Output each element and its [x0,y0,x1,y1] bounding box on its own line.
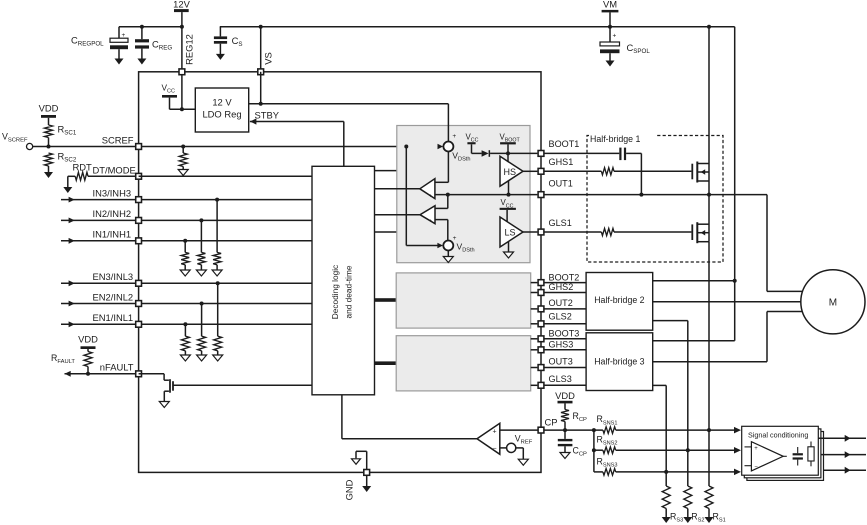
driver LS [500,217,523,247]
source VREF [500,433,533,452]
wire GHS3 ext [544,349,586,351]
pin GLS2 [538,312,572,327]
svg-text:+: + [122,32,126,39]
svg-text:+: + [452,133,456,140]
resistor IN3 pulldown [212,198,222,276]
resistor gate HS1 [544,168,691,175]
wire driver pin y367.5 [531,367,538,369]
op-amp signal [745,442,787,471]
wire CP node [544,428,603,432]
motor M [801,270,865,334]
pin CP [538,417,557,433]
svg-text:GHS2: GHS2 [549,282,574,292]
wire phase1 to motor [767,195,833,292]
svg-text:Half-bridge 3: Half-bridge 3 [594,356,644,366]
svg-text:SCREF: SCREF [102,134,134,145]
pin GND [344,451,372,500]
pin SCREF [136,144,142,150]
svg-text:VDD: VDD [555,390,575,401]
svg-text:VDD: VDD [78,334,98,345]
svg-text:BOOT2: BOOT2 [549,272,580,282]
wire boot to switch node [639,153,643,196]
wire compB ref [435,220,448,241]
svg-text:+: + [754,446,758,452]
output nFAULT [65,362,142,377]
pin GLS1 [538,218,572,235]
svg-text:nFAULT: nFAULT [100,362,134,373]
wire DT/MODE internal [139,175,312,177]
transistor nFAULT open-drain [139,374,312,408]
svg-text:Half-bridge 2: Half-bridge 2 [594,295,644,305]
pin OUT2 [538,298,573,312]
wire sense2 [653,321,690,486]
wire SCREF branch [404,145,443,249]
wire sense row3 [616,469,741,476]
wire phase3 to motor [653,312,833,362]
pin BOOT2 [538,272,579,285]
svg-text:VS: VS [263,52,274,65]
resistor RSNS2 [597,434,618,453]
wire driver pin y292.5 [531,292,538,294]
svg-text:IN2/INH2: IN2/INH2 [93,208,132,219]
wire VDS chain [435,104,449,183]
wire decode to LS [375,231,501,233]
wire STBY [250,109,344,166]
resistor RSNS1 [597,414,618,433]
wire sense row1 [616,427,741,434]
capacitor CREGPOL [71,27,128,65]
svg-text:EN3/INL3: EN3/INL3 [93,271,134,282]
input IN1/INH1 [61,229,312,244]
capacitor CSPOL [600,27,650,67]
bus decode to driver2 [375,298,397,302]
svg-text:GHS1: GHS1 [549,157,574,167]
source VDSth high [443,133,470,162]
svg-text:BOOT3: BOOT3 [549,328,580,338]
wire BOOT2 ext [544,282,586,284]
resistor RS3 [662,486,684,524]
wire VS internal [259,72,263,106]
resistor IN1 pulldown [180,239,190,276]
wire sense3 [653,385,669,486]
svg-text:−: − [493,445,497,452]
wire decode to csamp [342,395,477,439]
svg-text:OUT1: OUT1 [549,179,573,189]
wire BOOT1 ext [544,152,619,154]
wire LS source sense1 [707,242,711,486]
wire csamp plus to CP [500,429,538,431]
svg-text:GND: GND [344,479,355,500]
resistor SCREF pulldown [178,145,188,176]
bus decode to driver3 [375,361,397,365]
wire driver pin y323.8 [531,323,538,325]
svg-text:+: + [613,33,617,40]
block half-bridge 3 [586,333,653,391]
wire sense bus [592,430,603,472]
wire LS out [523,231,537,233]
wire OUT1 ext [544,194,767,196]
wire OUT3 ext [544,367,586,369]
resistor RCP [561,410,587,431]
input IN2/INH2 [61,208,312,223]
resistor gate LS1 [544,228,691,235]
resistor RSC1 [45,124,77,147]
capacitor signal [793,447,803,466]
svg-text:GLS1: GLS1 [549,218,572,228]
pin OUT3 [538,357,573,371]
svg-text:12 V: 12 V [212,97,232,108]
wire GHS2 ext [544,292,586,294]
svg-text:IN1/INH1: IN1/INH1 [93,229,132,240]
svg-text:EN2/INL2: EN2/INL2 [93,291,134,302]
source VDSth low [443,235,474,254]
driver HS [500,156,523,186]
wire comparator B out [375,214,421,216]
svg-text:Signal conditioning: Signal conditioning [748,430,808,439]
svg-text:VDD: VDD [39,103,59,114]
resistor RS2 [683,486,704,524]
supply VDD nfault [78,334,98,352]
svg-text:BOOT1: BOOT1 [549,139,580,149]
svg-text:LDO Reg: LDO Reg [202,109,241,120]
svg-text:GLS3: GLS3 [549,374,572,384]
resistor RSNS3 [597,457,618,476]
svg-text:OUT3: OUT3 [549,357,573,367]
pin DT/MODE [136,173,142,179]
resistor EN3 pulldown [213,281,223,361]
supply VCC boot [466,132,479,153]
svg-text:CP: CP [545,417,558,428]
wire HS source [508,181,510,195]
input IN3/INH3 [61,187,312,202]
wire REG12 top rail [119,25,184,29]
device boundary [139,72,541,473]
svg-text:GLS2: GLS2 [549,312,572,322]
resistor RFAULT [51,352,92,376]
pin GLS3 [538,374,572,388]
block gate driver 3 [396,336,531,391]
ground LS [504,242,514,259]
wire OUT2 ext [544,308,586,310]
resistor signal [808,442,814,467]
label SCREF [102,134,134,145]
wire LDO output [249,103,449,105]
supply VCC ldo [162,83,178,110]
comparator VDS high [420,179,435,200]
wire GLS3 ext [544,384,586,386]
svg-text:VM: VM [603,0,617,10]
svg-text:GHS3: GHS3 [549,339,574,349]
wire phase2 to motor [653,301,833,303]
svg-text:and dead-time: and dead-time [344,265,354,318]
output sense 2 [821,451,866,458]
comparator VDS low [420,206,435,225]
terminal VSCREF [2,132,33,150]
svg-text:Decoding logic: Decoding logic [330,265,340,319]
svg-text:+: + [429,194,432,200]
wire decode to HS [375,170,501,172]
supply VBOOT [500,132,521,162]
pin GHS2 [538,282,573,295]
svg-text:IN3/INH3: IN3/INH3 [93,187,132,198]
resistor RSC2 [44,151,77,179]
wire SCREF [33,145,438,149]
svg-text:REG12: REG12 [183,34,194,65]
capacitor bootstrap 1 [619,148,641,161]
supply VCC ls [500,198,516,222]
wire VCC to LDO [170,75,196,111]
capacitor CCP [558,430,587,458]
wire driver pin y338.8 [531,338,538,340]
ground VDSth low [443,250,453,262]
supply VDD left [39,103,59,126]
wire HS out [523,170,537,172]
block gate driver 1 [397,126,530,263]
resistor EN1 pulldown [180,322,190,361]
block signal conditioning [742,426,824,480]
svg-text:12V: 12V [173,0,190,10]
output sense 1 [818,435,866,442]
svg-text:RDT: RDT [73,162,93,173]
output sense 3 [824,467,867,474]
capacitor CREG [135,25,172,65]
pin GHS1 [538,157,573,174]
input EN1/INL1 [61,312,312,327]
supply 12V [173,0,190,72]
wire driver pin y349.8 [531,349,538,351]
block gate driver 2 [396,273,531,328]
svg-text:M: M [829,298,837,309]
block half-bridge 2 [586,273,653,331]
pin REG12 [179,34,194,75]
svg-text:−: − [754,464,758,470]
svg-text:OUT2: OUT2 [549,298,573,308]
wire comparator A out [375,188,420,190]
svg-text:STBY: STBY [255,109,280,120]
wire driver pin y308.9 [531,308,538,310]
wire SCREF arrow top [438,144,444,150]
svg-text:DT/MODE: DT/MODE [93,164,136,175]
ground VREF [516,448,529,465]
svg-text:+: + [429,219,432,225]
wire OUT1 to compB [435,195,448,209]
wire OUT1 feedback [435,193,538,197]
input EN3/INL3 [61,271,312,286]
pin BOOT1 [538,139,579,156]
wire GLS2 ext [544,323,586,325]
supply VDD cp [555,390,575,410]
capacitor CS [214,27,243,60]
transistor low-side [692,195,709,244]
input EN2/INL2 [61,291,312,306]
block half-bridge 1 dashed [587,133,723,262]
pin OUT1 [538,179,573,198]
svg-text:Half-bridge 1: Half-bridge 1 [590,134,640,144]
wire BOOT1 internal [508,152,537,154]
wire driver pin y282.6 [531,282,538,284]
resistor EN2 pulldown [197,302,207,362]
diode bootstrap [472,150,509,157]
pin BOOT3 [538,328,579,341]
wire VS/VM top rail [220,26,735,28]
svg-text:HS: HS [504,167,517,177]
logic block Decoding [312,166,375,394]
comparator CS [477,423,500,454]
resistor RS1 [705,486,726,524]
pin VS [258,25,274,75]
label DT/MODE [93,164,136,175]
pin GHS3 [538,339,573,352]
svg-text:EN1/INL1: EN1/INL1 [93,312,134,323]
wire BOOT3 ext [544,338,586,340]
svg-text:LS: LS [505,228,516,238]
resistor IN2 pulldown [196,218,206,276]
wire VM feed [653,27,737,341]
wire sense row2 [616,447,741,454]
resistor RDT [63,162,138,193]
regulator 12V LDO [195,88,248,132]
wire driver pin y385.3 [531,384,538,386]
svg-text:+: + [493,429,497,436]
transistor high-side [692,25,711,197]
supply VM [602,0,619,29]
